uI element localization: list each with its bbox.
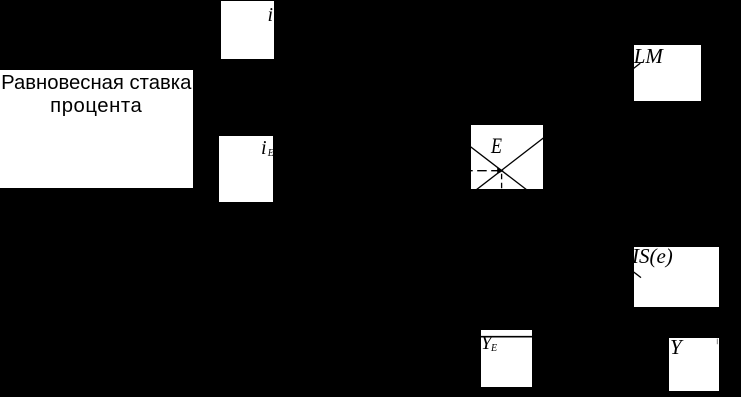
node: label iE — [261, 138, 267, 158]
node: label E — [491, 135, 502, 157]
node: label i — [268, 5, 274, 25]
wire: dashed horizontal guide to E — [463, 170, 497, 172]
wire: horizontal Y axis through YE box — [300, 336, 717, 338]
node: label Y — [670, 337, 682, 358]
node: Y axis label box — [669, 338, 719, 392]
wire: LM curve (rising line through E into LM box) — [455, 63, 640, 206]
node: YE label box — [481, 330, 533, 387]
node: E equilibrium label box — [471, 125, 543, 189]
node: caption text — [0, 72, 193, 119]
node: axis arrowhead remnant near Y box — [716, 339, 718, 345]
wire: dashed vertical guide below E — [501, 174, 503, 205]
node: label YE — [481, 334, 492, 353]
node: label LM — [634, 46, 663, 67]
node: left caption box "Равновесная ставка процента" — [0, 70, 193, 188]
node: arrowhead at E — [497, 167, 503, 174]
node: i axis label box — [221, 1, 274, 58]
node: IS(e) curve label box — [634, 247, 720, 307]
node: LM curve label box — [634, 45, 702, 101]
wire: IS curve (falling line through E into IS(e) box) — [458, 137, 641, 278]
node: label IS(e) — [632, 246, 673, 267]
node: iE label box — [219, 136, 273, 203]
